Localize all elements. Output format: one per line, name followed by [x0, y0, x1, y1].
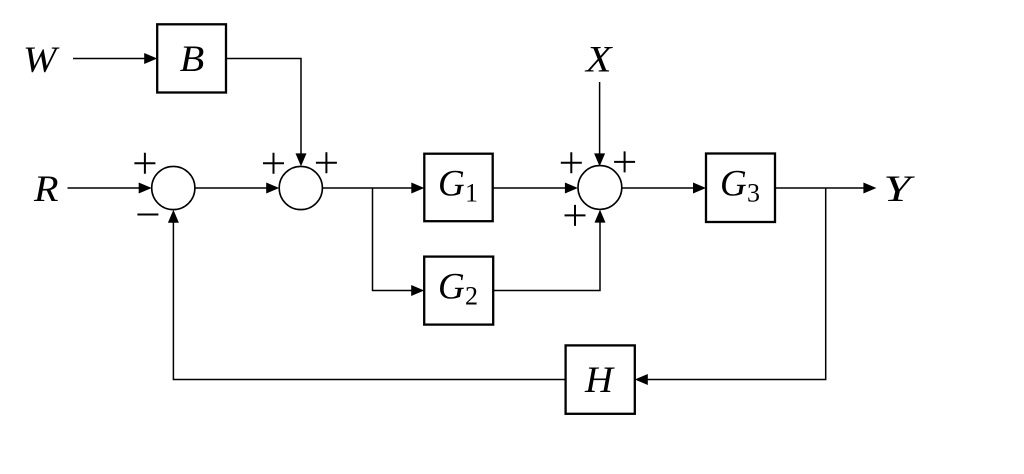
wire feedback from output branch down to H — [647, 188, 826, 380]
block G3 — [706, 154, 775, 223]
plus sign S2 right — [316, 152, 337, 173]
summing junction S2 — [279, 166, 322, 209]
plus sign S3 top-right — [614, 151, 635, 172]
wire branch to G2 — [373, 188, 413, 291]
svg-text:H: H — [584, 360, 615, 401]
wire B to summing junction S2 — [226, 59, 301, 155]
minus sign S1 — [137, 214, 158, 216]
svg-text:G: G — [438, 164, 465, 205]
wire G1 to S3 — [493, 187, 566, 189]
svg-text:X: X — [584, 39, 613, 80]
wire S1 to S2 — [195, 187, 267, 189]
svg-text:G: G — [438, 267, 465, 308]
block G1 — [424, 154, 492, 222]
wire G3 to Y — [775, 187, 865, 189]
block H — [566, 345, 635, 413]
plus sign S3 bottom-left — [565, 205, 586, 226]
plus sign S2 left — [263, 153, 284, 174]
summing junction S1 — [152, 166, 195, 209]
wire W to B — [73, 58, 146, 60]
wire H back to S1 — [173, 222, 565, 380]
svg-text:3: 3 — [747, 179, 760, 208]
wire G2 to S3 — [493, 222, 600, 291]
svg-text:W: W — [23, 40, 60, 81]
svg-text:1: 1 — [465, 179, 478, 208]
wire R to summing junction S1 — [68, 187, 141, 189]
summing junction S3 — [578, 166, 622, 210]
svg-text:Y: Y — [884, 169, 915, 210]
wire S2 to G1 — [322, 187, 412, 189]
svg-text:B: B — [180, 39, 205, 80]
wire X to S3 — [599, 82, 601, 155]
svg-text:2: 2 — [465, 282, 478, 311]
svg-text:G: G — [720, 164, 747, 205]
wire S3 to G3 — [622, 187, 694, 189]
plus sign S1 — [134, 153, 155, 174]
block G2 — [424, 257, 493, 325]
block B — [157, 24, 226, 92]
svg-text:R: R — [33, 169, 59, 210]
plus sign S3 top-left — [561, 152, 582, 173]
